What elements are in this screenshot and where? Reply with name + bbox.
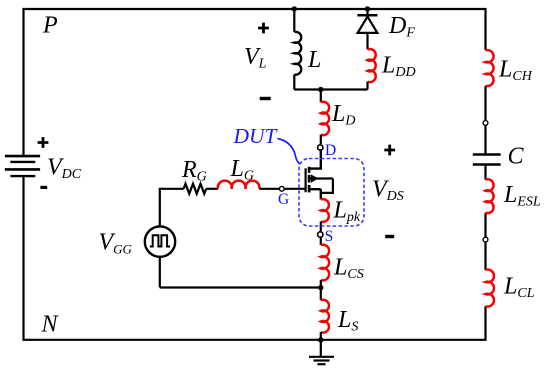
node D terminal circle <box>318 145 323 150</box>
svg-text:N: N <box>41 312 60 338</box>
wire L_pk bottom lead to source node <box>320 222 322 232</box>
wire gate lead <box>284 188 306 190</box>
label plus of V_DS <box>384 145 395 156</box>
resistor R_G <box>184 184 207 194</box>
svg-text:P: P <box>42 13 58 39</box>
inductor L (load) <box>294 32 301 75</box>
wire L_CS to L_S <box>320 280 322 300</box>
inductor L_pk (parasitic) <box>321 199 329 222</box>
wire L_S bottom lead <box>320 332 322 340</box>
wire outer frame (P rail top, right bus, N rail bottom, left bus) <box>24 9 486 340</box>
inductor L_CL (parasitic) <box>486 270 494 307</box>
battery minus sign <box>40 186 47 189</box>
source V_GG <box>145 226 175 256</box>
label plus of V_L <box>258 23 269 34</box>
svg-text:D: D <box>325 142 336 159</box>
junction mid node / L_D branch <box>318 87 323 92</box>
wire load inductor branch top lead <box>293 9 295 32</box>
inductor L_CH (parasitic) <box>486 50 494 86</box>
junction kelvin node <box>318 285 323 290</box>
svg-text:C: C <box>508 144 525 170</box>
inductor L_G (parasitic) <box>218 181 260 189</box>
wire gate loop left vertical top <box>160 189 184 227</box>
wire L_D bottom lead to drain node <box>320 135 322 144</box>
inductor L_DD (parasitic) <box>368 49 376 82</box>
wire load inductor bottom lead <box>293 75 295 90</box>
svg-text:G: G <box>278 191 289 208</box>
diode D_F <box>357 9 377 50</box>
junction top border / L branch <box>292 6 297 11</box>
inductor L_S (parasitic) <box>321 300 329 333</box>
capacitor C <box>473 155 501 165</box>
wire L_D top lead <box>320 90 322 103</box>
DUT leader curve <box>278 139 300 164</box>
inductor L_ESL (parasitic) <box>486 179 494 213</box>
V_GG pulse waveform glyph <box>150 235 170 246</box>
inductor L_D (parasitic) <box>321 102 329 135</box>
svg-text:S: S <box>325 228 334 245</box>
ground <box>309 340 334 364</box>
svg-text:L: L <box>307 47 321 73</box>
transistor body arrow head <box>311 174 319 182</box>
DUT dashed box <box>299 159 364 227</box>
node mid terminal circle right bus <box>483 237 488 242</box>
wire L_G to gate node <box>259 188 279 190</box>
wire L_DD bottom lead <box>366 82 368 90</box>
wire gate loop left vertical bottom <box>159 257 161 288</box>
junction bottom rail <box>318 337 323 342</box>
battery V_DC <box>5 156 40 176</box>
label minus of V_DS <box>385 235 394 238</box>
node S terminal circle <box>318 232 323 237</box>
transistor Q1 DUT MOSFET <box>306 167 333 200</box>
node G terminal circle <box>279 186 284 191</box>
inductor L_CS (parasitic) <box>321 245 329 281</box>
junction top border / D_F branch <box>365 6 370 11</box>
label minus of V_L <box>260 97 271 100</box>
wire source node to L_CS <box>320 237 322 245</box>
battery plus sign <box>38 137 49 148</box>
wire R_G to L_G <box>206 188 218 190</box>
svg-text:DUT: DUT <box>233 124 279 148</box>
wire drain lead <box>309 149 321 168</box>
wire gate return bottom horizontal <box>160 286 321 288</box>
wire half-bridge mid horizontal <box>294 88 367 90</box>
node capacitor top terminal circle <box>483 121 488 126</box>
